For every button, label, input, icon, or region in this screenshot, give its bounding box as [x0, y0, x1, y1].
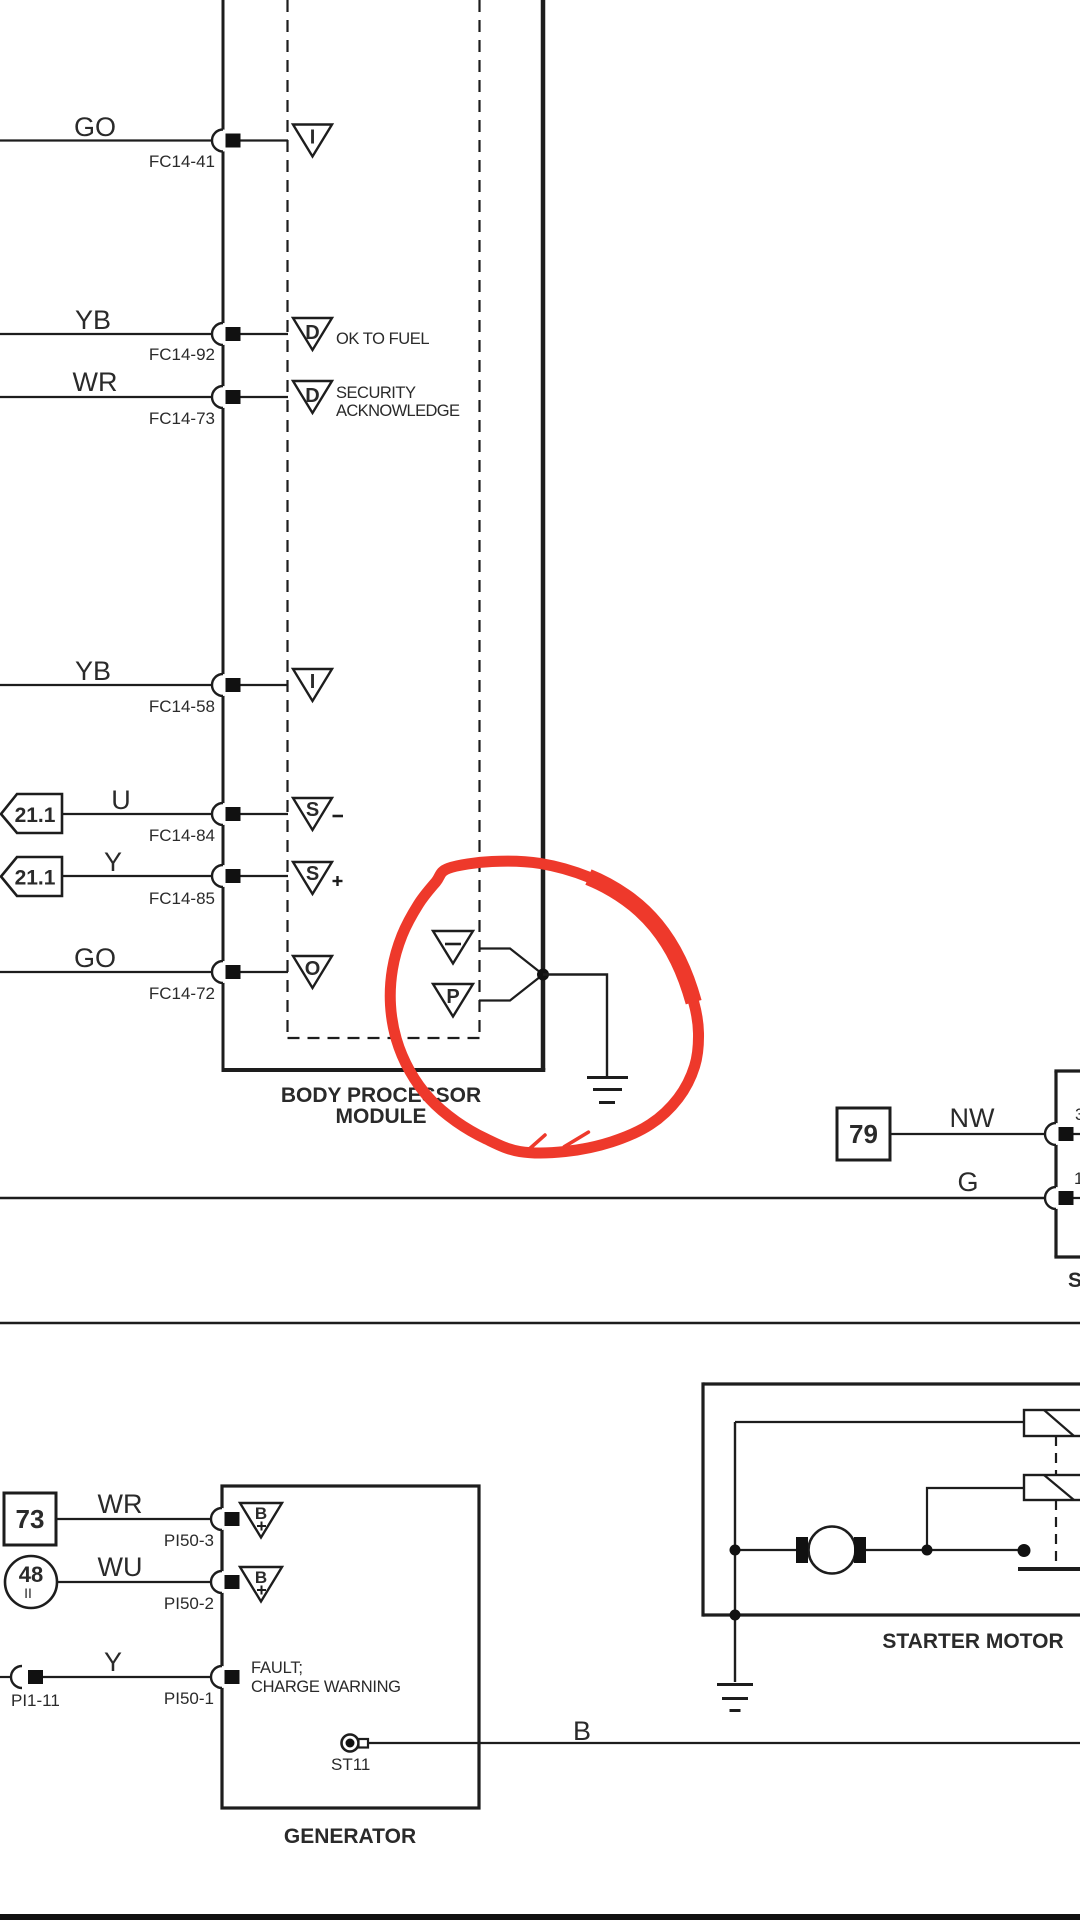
connector pin FC14-85	[149, 865, 288, 908]
svg-text:NW: NW	[950, 1103, 995, 1133]
connector pin FC14-41	[149, 130, 288, 172]
wire NW	[890, 1103, 1045, 1134]
symbol triangle O row7	[293, 956, 332, 988]
node junction	[537, 969, 549, 981]
symbol triangle minus internal	[433, 931, 473, 964]
generator box	[222, 1486, 479, 1808]
svg-text:I: I	[310, 671, 316, 693]
section divider	[0, 1322, 1080, 1325]
svg-text:FC14-72: FC14-72	[149, 984, 215, 1003]
terminal 79 box	[837, 1108, 890, 1160]
wire feed vertical	[734, 1422, 736, 1682]
wire to pull-in coil	[735, 1421, 1024, 1423]
connector pin PI50-2	[164, 1571, 240, 1613]
svg-text:S: S	[306, 799, 319, 821]
splice ST11	[331, 1735, 370, 1775]
svg-text:WU: WU	[98, 1552, 143, 1582]
solenoid pin 3	[1045, 1105, 1080, 1145]
wire GO row7	[0, 943, 212, 973]
symbol triangle S plus	[293, 862, 343, 894]
svg-text:O: O	[305, 958, 321, 980]
label FAULT; CHARGE WARNING	[251, 1659, 401, 1696]
svg-text:WR: WR	[73, 367, 118, 397]
symbol triangle I row4	[293, 669, 332, 701]
symbol triangle D SECURITY ACKNOWLEDGE	[293, 381, 460, 420]
svg-text:73: 73	[16, 1504, 45, 1534]
svg-text:PI1-11: PI1-11	[11, 1691, 60, 1710]
wire YB row2	[0, 305, 212, 335]
svg-text:21.1: 21.1	[15, 804, 56, 827]
svg-text:WR: WR	[98, 1489, 143, 1519]
symbol triangle B+ row WR	[240, 1503, 282, 1538]
svg-text:B: B	[573, 1716, 591, 1746]
off-page arrow 21.1 row6	[1, 857, 62, 896]
connector pin PI50-1	[164, 1666, 240, 1708]
body processor module box	[222, 0, 546, 1070]
symbol triangle P internal	[433, 984, 473, 1017]
svg-text:YB: YB	[75, 656, 111, 686]
wire WU generator	[57, 1552, 211, 1582]
svg-text:MODULE: MODULE	[336, 1105, 427, 1128]
connector pin FC14-73	[149, 386, 288, 428]
wire motor right	[866, 1549, 1024, 1551]
svg-text:FC14-85: FC14-85	[149, 889, 215, 908]
svg-text:I: I	[310, 127, 316, 149]
svg-text:OK TO FUEL: OK TO FUEL	[336, 330, 430, 348]
wire B	[369, 1716, 1080, 1746]
solenoid pin 1	[1045, 1169, 1080, 1209]
BODY PROCESSOR MODULE title	[281, 1084, 481, 1128]
svg-text:ST11: ST11	[331, 1755, 370, 1774]
svg-text:48: 48	[19, 1562, 43, 1587]
svg-text:SECURITY: SECURITY	[336, 384, 416, 402]
svg-text:FC14-58: FC14-58	[149, 697, 215, 716]
svg-text:CHARGE WARNING: CHARGE WARNING	[251, 1678, 401, 1696]
connector pin FC14-84	[149, 803, 288, 845]
terminal 73 box	[4, 1493, 56, 1545]
svg-text:B: B	[255, 1504, 267, 1523]
wire motor left	[735, 1549, 796, 1551]
BPM inner dashed boundary	[288, 0, 480, 1038]
starter motor box	[703, 1382, 1080, 1616]
svg-text:79: 79	[849, 1119, 878, 1149]
svg-text:FC14-92: FC14-92	[149, 345, 215, 364]
wire WR generator	[56, 1489, 211, 1519]
symbol triangle D OK TO FUEL	[293, 318, 430, 350]
ground	[587, 1078, 628, 1103]
connector pin FC14-72	[149, 961, 288, 1003]
mechanical link dashed	[1055, 1436, 1057, 1566]
starter solenoid box	[1054, 1071, 1080, 1257]
svg-text:GO: GO	[74, 943, 116, 973]
off-page arrow 21.1 row5	[1, 794, 62, 833]
wire to ground	[543, 975, 607, 1078]
contact bar	[1018, 1567, 1080, 1571]
svg-text:G: G	[957, 1167, 978, 1197]
svg-text:FC14-73: FC14-73	[149, 409, 215, 428]
svg-text:STARTER MOTOR: STARTER MOTOR	[882, 1630, 1063, 1653]
svg-text:GO: GO	[74, 112, 116, 142]
connector pin PI50-3	[164, 1508, 240, 1550]
svg-text:U: U	[111, 785, 131, 815]
symbol triangle I row1	[293, 125, 332, 157]
svg-text:S: S	[1068, 1269, 1080, 1292]
svg-text:PI50-2: PI50-2	[164, 1594, 214, 1613]
wire Y generator with inline connector PI1-11	[0, 1647, 211, 1710]
svg-text:GENERATOR: GENERATOR	[284, 1825, 416, 1848]
svg-text:B: B	[255, 1568, 267, 1587]
svg-text:YB: YB	[75, 305, 111, 335]
wire Y row6	[62, 847, 212, 877]
red annotation circle	[390, 861, 698, 1153]
svg-text:3: 3	[1075, 1105, 1080, 1124]
svg-text:D: D	[305, 322, 319, 344]
coil L2	[1024, 1475, 1080, 1500]
ground starter	[717, 1685, 753, 1711]
wire sense merge	[479, 949, 543, 1001]
wire hold coil	[927, 1488, 1024, 1550]
svg-text:FC14-84: FC14-84	[149, 826, 215, 845]
wire YB row4	[0, 656, 212, 686]
motor M1	[796, 1527, 866, 1574]
coil L1	[1024, 1410, 1080, 1436]
svg-text:ACKNOWLEDGE: ACKNOWLEDGE	[336, 402, 460, 420]
svg-text:Y: Y	[104, 847, 122, 877]
symbol triangle B+ row WU	[240, 1567, 282, 1602]
connector pin FC14-92	[149, 323, 288, 364]
svg-text:S: S	[306, 863, 319, 885]
svg-text:1: 1	[1074, 1169, 1080, 1188]
svg-text:21.1: 21.1	[15, 867, 56, 890]
svg-text:II: II	[24, 1585, 32, 1601]
wire U row5	[62, 785, 212, 815]
wire WR row3	[0, 367, 212, 397]
svg-text:PI50-3: PI50-3	[164, 1531, 214, 1550]
connector 48 circle	[5, 1556, 57, 1608]
svg-text:FC14-41: FC14-41	[149, 152, 215, 171]
wire GO row1	[0, 112, 212, 142]
node dots starter	[730, 1544, 1031, 1621]
svg-text:Y: Y	[104, 1647, 122, 1677]
symbol triangle S minus	[293, 798, 343, 830]
connector pin FC14-58	[149, 674, 288, 716]
svg-text:D: D	[305, 385, 319, 407]
bottom border bar	[0, 1914, 1080, 1920]
svg-text:BODY PROCESSOR: BODY PROCESSOR	[281, 1084, 481, 1107]
svg-text:PI50-1: PI50-1	[164, 1689, 214, 1708]
wire G	[0, 1167, 1045, 1198]
svg-text:FAULT;: FAULT;	[251, 1659, 303, 1677]
svg-text:P: P	[446, 986, 459, 1008]
